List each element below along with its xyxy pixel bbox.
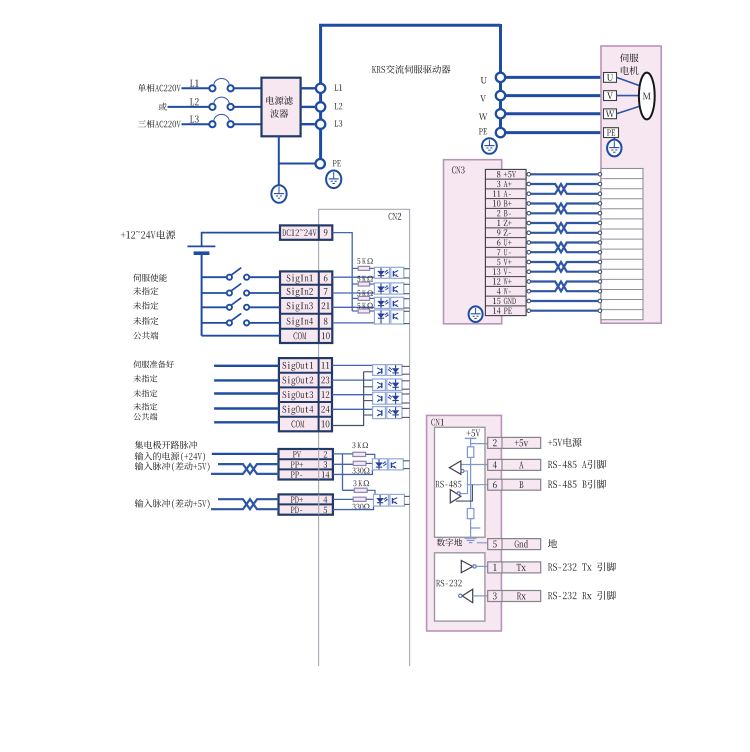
wire pin 3 to Rx: [473, 595, 489, 597]
power filter box 电源滤波器: [262, 78, 301, 137]
wire rail to COM: [202, 335, 280, 337]
battery negative rail: [201, 254, 203, 336]
opto U7 common stub: [364, 400, 373, 402]
CN3 pin terminal dot 6: [527, 241, 531, 245]
optocoupler output U5: [373, 365, 402, 376]
wire PP- to opto: [333, 470, 373, 475]
wire L1 input: [182, 87, 210, 89]
drive input terminal L3: [316, 120, 325, 129]
switch SigIn1: [227, 268, 249, 280]
CN3 pin 7 U-: [497, 249, 511, 255]
terminal label PE drive-left: [333, 160, 341, 166]
CN3 pin 3 A+: [497, 181, 512, 187]
CN3 pin terminal dot 2: [527, 211, 531, 215]
label L1 over input wire: [190, 80, 199, 87]
label input pulse differential 5V (PP): [135, 462, 210, 472]
encoder wire +5V: [530, 173, 598, 175]
CN2 edge through PD block: [318, 494, 320, 514]
wire rail to switch SigIn1: [202, 276, 227, 278]
label RS-485: [436, 481, 462, 488]
PD pin block: [279, 494, 333, 514]
CN3 pin terminal dot 7: [527, 250, 531, 254]
CN3 pin table: [485, 169, 526, 315]
DC12~24V pin box pin 9: [280, 225, 332, 239]
label RS-232: [436, 580, 462, 587]
opto U8 common stub: [364, 414, 373, 416]
CN3 pin 11 A-: [493, 191, 511, 197]
label 5K ohm 1: [357, 258, 373, 264]
label +5V internal: [467, 430, 481, 437]
motor pin terminal dot row 1: [598, 172, 602, 176]
opto U10 right stubs: [404, 496, 409, 504]
opto U7 right stubs: [402, 394, 410, 403]
CN3 pin terminal dot 14: [527, 309, 531, 313]
CN3 pin terminal dot 10: [527, 202, 531, 206]
motor terminal W: [604, 109, 617, 119]
drive right bus vertical wire: [499, 73, 502, 128]
wire switch to SigIn2: [249, 292, 280, 294]
wire rail R9 to A node: [470, 457, 472, 464]
wire Tx to pin 1: [476, 565, 488, 567]
label CN2: [389, 213, 402, 220]
SigOut row COM pin 10: [291, 420, 329, 427]
optocoupler input U4: [374, 310, 403, 324]
CN3 pin terminal dot 8: [527, 172, 531, 176]
encoder twisted pair Z+/Z-: [530, 223, 598, 233]
switch L3: [209, 114, 233, 127]
label L3 over input wire: [190, 115, 199, 122]
CN1 pin box 1 Tx: [488, 562, 541, 573]
ground below filter: [271, 185, 286, 203]
SigOut row SigOut4 pin 24: [283, 406, 330, 415]
wire switch to SigIn4: [249, 322, 280, 324]
ground at drive PE input: [326, 171, 341, 189]
label CN1: [431, 419, 444, 426]
switch SigIn3: [227, 298, 249, 310]
wire switch to SigIn3: [249, 306, 280, 308]
terminal label V: [480, 95, 486, 101]
motor terminal PE: [604, 128, 619, 138]
wire SigOut2 pin to opto: [332, 379, 373, 381]
label 5K ohm 3: [357, 290, 373, 296]
CN3 pin 14 PE: [493, 307, 512, 313]
label OR: [159, 103, 167, 111]
drive input terminal L2: [316, 102, 325, 111]
switch L1: [209, 78, 233, 91]
wire battery to pin9 box: [202, 233, 280, 246]
label digital ground: [437, 538, 462, 546]
terminal label PE drive-right: [479, 128, 487, 134]
label 3K ohm lower: [353, 480, 369, 486]
CN3 pin terminal dot 4: [527, 289, 531, 293]
wire input to SigOut row 1: [214, 365, 279, 367]
label RS-485 B引脚: [548, 480, 606, 489]
wire driver output to B line: [456, 485, 473, 501]
motor pin terminal dot row 14: [598, 299, 602, 303]
wire switch to filter L3: [234, 123, 262, 125]
resistor R10 pulldown: [467, 509, 474, 519]
optocoupler PD U10: [374, 494, 405, 506]
CN1 pin box 4 A: [488, 459, 541, 470]
wire drive to motor W: [506, 112, 604, 115]
SigIn connector block: [280, 271, 332, 343]
resistor 5K R4: [352, 309, 374, 313]
motor pin terminal dot row 5: [598, 211, 602, 215]
label 330 ohm lower: [352, 504, 369, 510]
digital ground symbol: [465, 538, 477, 542]
CN3 pin 8 +5V: [497, 171, 516, 177]
top loop wire to output side: [319, 24, 500, 73]
twisted pair PD input: [211, 499, 279, 509]
encoder twisted pair W+/W-: [530, 282, 598, 292]
drive output terminal PE: [496, 128, 505, 137]
wire pin9 to opto rail: [332, 233, 352, 311]
optocoupler input U2: [374, 283, 403, 294]
SigOut row SigOut1 pin 11: [283, 362, 330, 371]
connector CN2 outline: [319, 209, 410, 666]
label 公共端 (SigIn): [133, 332, 158, 340]
label KRS AC servo drive: [372, 65, 450, 74]
wire SigIn4 pin to opto: [332, 322, 374, 324]
CN3 pin terminal dot 11: [527, 192, 531, 196]
drive output terminal W: [496, 109, 505, 118]
wire input to SigOut row 2: [214, 379, 279, 381]
terminal label L1: [334, 84, 342, 90]
drive input terminal PE: [316, 159, 325, 168]
resistor 330 R8: [353, 497, 373, 501]
wire PD+ to 330: [333, 498, 353, 500]
CN3 pin terminal dot 13: [527, 270, 531, 274]
wire drive to motor PE: [506, 131, 604, 134]
CN3 pin 10 B+: [493, 200, 512, 206]
wire SigIn3 pin to opto: [332, 306, 374, 308]
label 未指定 (SigOut): [133, 375, 157, 383]
motor terminal V: [604, 91, 617, 101]
terminal label L2: [334, 103, 342, 109]
encoder twisted pair V+/V-: [530, 262, 598, 272]
wire ground to pin 5: [477, 542, 488, 544]
rail A node to B node to R10: [467, 465, 473, 509]
label 未指定 (SigIn): [133, 317, 158, 325]
wire R10 to digital ground: [471, 519, 481, 538]
CN3 pin 12 W+: [493, 278, 512, 284]
wire filter PE drop: [279, 136, 316, 185]
SigIn row SigIn1 pin 6: [287, 274, 328, 283]
opto U4 right stubs: [404, 311, 410, 323]
label 未指定 (SigOut): [133, 403, 157, 411]
terminal label U: [481, 77, 487, 83]
SigOut connector block: [279, 358, 332, 431]
wire filter to drive terminal L3: [301, 123, 316, 125]
CN2 edge through PV block: [318, 449, 320, 480]
label single-phase AC220V: [138, 84, 181, 92]
ground inside CN3: [469, 306, 483, 322]
label three-phase AC220V: [138, 120, 181, 128]
motor winding wire U: [617, 77, 643, 86]
wire input to SigOut row 4: [214, 407, 279, 409]
wire SigOut3 pin to opto: [332, 394, 373, 396]
resistor 330 R6: [353, 461, 372, 465]
label RS-485 A引脚: [548, 460, 606, 469]
opto U8 right stubs: [402, 408, 410, 417]
CN3 pin 15 GND: [493, 298, 516, 304]
encoder twisted pair U+/U-: [530, 243, 598, 253]
terminal label W: [479, 113, 488, 119]
encoder twisted pair B+/B-: [530, 204, 598, 214]
label RS-232 Tx 引脚: [548, 562, 616, 571]
motor pin terminal dot row 15: [598, 309, 602, 313]
CN3 pin terminal dot 1: [527, 221, 531, 225]
opto U5 right stubs: [402, 366, 410, 374]
+5V supply bar and rail: [465, 438, 477, 447]
wire input to SigOut row 3: [214, 392, 279, 394]
motor encoder terminal table: [601, 169, 643, 320]
label 5K ohm 4: [357, 303, 373, 309]
resistor 5K R3: [352, 296, 374, 300]
CN3 pin 13 V-: [493, 268, 511, 274]
RS-485 circuit box: [435, 427, 486, 537]
CN3 pin 4 W-: [497, 288, 511, 294]
drive left bus vertical wire: [319, 24, 322, 159]
wire SigIn1 pin to opto: [332, 276, 374, 278]
resistor 5K R1: [352, 266, 374, 270]
label 3K ohm upper: [352, 442, 368, 448]
SigOut row SigOut3 pin 12: [283, 391, 330, 400]
resistor 3K R7: [354, 488, 375, 494]
label 5K ohm 2: [357, 276, 373, 282]
servo motor box 伺服电机: [601, 46, 661, 323]
connector CN3 box: [444, 160, 502, 324]
label L2 over input wire: [190, 98, 199, 105]
switch SigIn2: [227, 284, 249, 296]
motor terminal U: [604, 73, 617, 83]
CN3 pin 2 B-: [497, 210, 511, 216]
motor winding wire V: [617, 95, 640, 97]
motor pin terminal dot row 12: [598, 280, 602, 284]
wire input to SigOut row 5: [214, 421, 279, 423]
motor pin terminal dot row 4: [598, 202, 602, 206]
label +5V电源: [548, 438, 582, 447]
CN3 pin 9 Z-: [497, 230, 511, 236]
motor winding wire W: [617, 105, 643, 113]
motor pin terminal dot row 11: [598, 270, 602, 274]
wire SigOut1 pin to opto: [332, 364, 373, 366]
SigIn row SigIn3 pin 21: [287, 302, 330, 311]
encoder wire GND: [530, 300, 598, 302]
resistor 5K R2: [352, 282, 374, 286]
label 未指定 (SigIn): [133, 287, 158, 295]
CN3 pin terminal dot 9: [527, 231, 531, 235]
CN3 pin terminal dot 3: [527, 182, 531, 186]
motor pin terminal dot row 6: [598, 221, 602, 225]
wire PD- to opto: [333, 506, 374, 509]
wire rail to switch SigIn2: [202, 292, 227, 294]
label 未指定 (SigOut): [133, 390, 157, 398]
switch L2: [209, 97, 233, 110]
drive output terminal V: [496, 91, 505, 100]
label input pulse differential 5V (PD): [135, 499, 210, 509]
motor pin terminal dot row 2: [598, 182, 602, 186]
opto U2 right stubs: [404, 284, 410, 293]
optocoupler output U6: [373, 379, 402, 390]
buffer U14 RS-232 Rx: [459, 589, 473, 603]
label RS-232 Rx 引脚: [548, 591, 616, 600]
CN1 pin box 2 +5v: [488, 437, 541, 448]
optocoupler PP U9: [372, 459, 403, 470]
buffer U11 RS-485 receiver: [449, 461, 464, 474]
label +12~24V power: [121, 230, 175, 239]
wire PV branch: [333, 454, 354, 490]
label 伺服准备好 (SigOut): [133, 360, 173, 368]
CN1 pin box 5 Gnd: [488, 539, 541, 550]
wire drive to motor V: [506, 94, 604, 97]
buffer U13 RS-232 Tx: [461, 561, 476, 573]
wire +5V to pin 2: [471, 443, 488, 445]
optocoupler input U1: [374, 267, 403, 278]
wire drive to motor U: [506, 76, 604, 79]
motor pin terminal dot row 9: [598, 250, 602, 254]
motor pin terminal dot row 13: [598, 289, 602, 293]
motor symbol M: [639, 73, 655, 120]
label 地: [548, 539, 557, 548]
wire SigIn2 pin to opto: [332, 292, 374, 294]
resistor 3K R5: [353, 452, 375, 459]
label CN3: [452, 166, 465, 173]
SigIn row COM pin 10: [293, 332, 329, 339]
drive output terminal U: [496, 73, 505, 82]
motor pin terminal dot row 3: [598, 192, 602, 196]
SigOut row SigOut2 pin 23: [283, 376, 330, 385]
CN3 pin terminal dot 12: [527, 280, 531, 284]
wire PV input: [212, 453, 279, 455]
buffer U12 RS-485 driver: [450, 490, 461, 503]
opto U9 right stubs: [403, 461, 409, 469]
wire PP+ to 330: [333, 463, 353, 465]
CN3 pin 1 Z+: [497, 220, 511, 226]
resistor R9 pullup: [467, 447, 473, 458]
battery symbol: [187, 246, 215, 253]
wire rail to switch SigIn3: [202, 306, 227, 308]
label 公共端 (SigOut): [133, 413, 157, 420]
enable wire between buffers: [460, 471, 467, 494]
encoder wire PE: [530, 310, 598, 312]
COM return rail for output optos: [332, 372, 364, 426]
opto U6 common stub: [364, 386, 373, 388]
CN1 pin box 3 Rx: [488, 591, 541, 602]
twisted pair PP input: [211, 464, 279, 474]
terminal label L3: [334, 120, 342, 127]
optocoupler output U7: [373, 392, 402, 404]
wire L2 input: [168, 106, 210, 108]
SigIn row SigIn4 pin 8: [287, 317, 328, 326]
wire SigOut4 pin to opto: [332, 408, 373, 410]
SigIn row SigIn2 pin 7: [287, 288, 328, 297]
CN3 pin 5 V+: [497, 259, 512, 265]
PV/PP pin block: [279, 449, 333, 480]
drive input terminal L1: [316, 84, 325, 93]
opto U1 right stubs: [404, 269, 410, 278]
label 伺服使能 (SigIn): [133, 274, 167, 282]
label 未指定 (SigIn): [133, 302, 158, 310]
RS-232 circuit box: [435, 553, 485, 621]
motor pin terminal dot row 8: [598, 241, 602, 245]
wire switch to filter L1: [234, 87, 262, 89]
wire switch to SigIn1: [249, 276, 280, 278]
wire L3 input: [182, 123, 210, 125]
wire filter to drive terminal L1: [301, 87, 316, 89]
opto U6 right stubs: [402, 381, 410, 389]
label 330 ohm upper: [352, 468, 369, 474]
ground at motor PE: [607, 138, 621, 157]
label input power +24V: [135, 452, 205, 462]
encoder twisted pair A+/A-: [530, 184, 598, 194]
opto U5 common stub: [364, 371, 373, 373]
CN3 pin terminal dot 5: [527, 260, 531, 264]
CN1 pin box 6 B: [488, 479, 541, 490]
motor pin terminal dot row 7: [598, 231, 602, 235]
optocoupler output U8: [373, 407, 402, 419]
wire filter to drive terminal L2: [301, 106, 316, 108]
connector CN1 box: [427, 415, 502, 631]
wire B node to pin 6: [471, 484, 488, 486]
CN3 pin terminal dot 15: [527, 299, 531, 303]
ground at drive PE output: [482, 138, 497, 154]
CN3 pin 6 U+: [497, 239, 512, 245]
wire A node to pin 4: [462, 464, 488, 466]
wire switch to filter L2: [234, 106, 262, 108]
wire rail to switch SigIn4: [202, 322, 227, 324]
motor pin terminal dot row 10: [598, 260, 602, 264]
label open-collector pulse: [135, 441, 197, 449]
opto U3 right stubs: [404, 299, 410, 308]
optocoupler input U3: [374, 297, 403, 308]
switch SigIn4: [227, 313, 249, 325]
